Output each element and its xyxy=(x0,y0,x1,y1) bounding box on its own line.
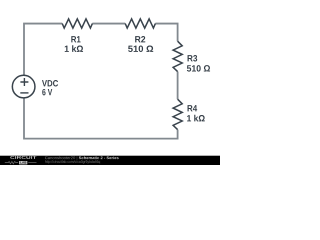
value 510 Ohm xyxy=(187,65,210,71)
footer logo CIRCUIT text xyxy=(10,156,36,159)
wire: left rail and top-left corner to R1 xyxy=(24,24,62,76)
voltage source minus sign xyxy=(20,92,28,94)
wire: R2 to top-right corner down to R3 xyxy=(155,24,177,42)
value 510 Ohm xyxy=(128,46,153,52)
label R3 xyxy=(188,55,198,61)
footer line1 title part xyxy=(79,156,119,159)
value 1 kOhm xyxy=(65,45,83,52)
voltage source plus sign xyxy=(20,78,28,86)
wire: R4 to bottom-right corner, bottom run, up to source xyxy=(24,98,178,139)
label R2 xyxy=(135,36,145,42)
resistor R4 zigzag xyxy=(173,99,182,129)
footer logo LAB box xyxy=(19,161,27,164)
label R4 xyxy=(188,105,198,111)
footer line1 user part xyxy=(45,156,77,160)
footer logo resistor squiggle xyxy=(5,161,18,163)
wire: R1 to R2 xyxy=(92,23,125,25)
value 1 kOhm xyxy=(187,115,205,122)
label R1 xyxy=(71,36,80,42)
footer line2 url xyxy=(45,160,100,164)
wire: R3 to R4 xyxy=(177,72,179,100)
resistor R2 zigzag xyxy=(125,19,155,28)
label VDC xyxy=(42,80,58,86)
resistor R1 zigzag xyxy=(62,19,92,28)
resistor R3 zigzag xyxy=(173,41,182,71)
value 6 V xyxy=(42,89,52,95)
voltage source V1 circle xyxy=(12,75,35,98)
footer bar xyxy=(0,156,220,165)
footer logo line after LAB xyxy=(28,162,36,164)
footer logo LAB text xyxy=(20,161,26,163)
